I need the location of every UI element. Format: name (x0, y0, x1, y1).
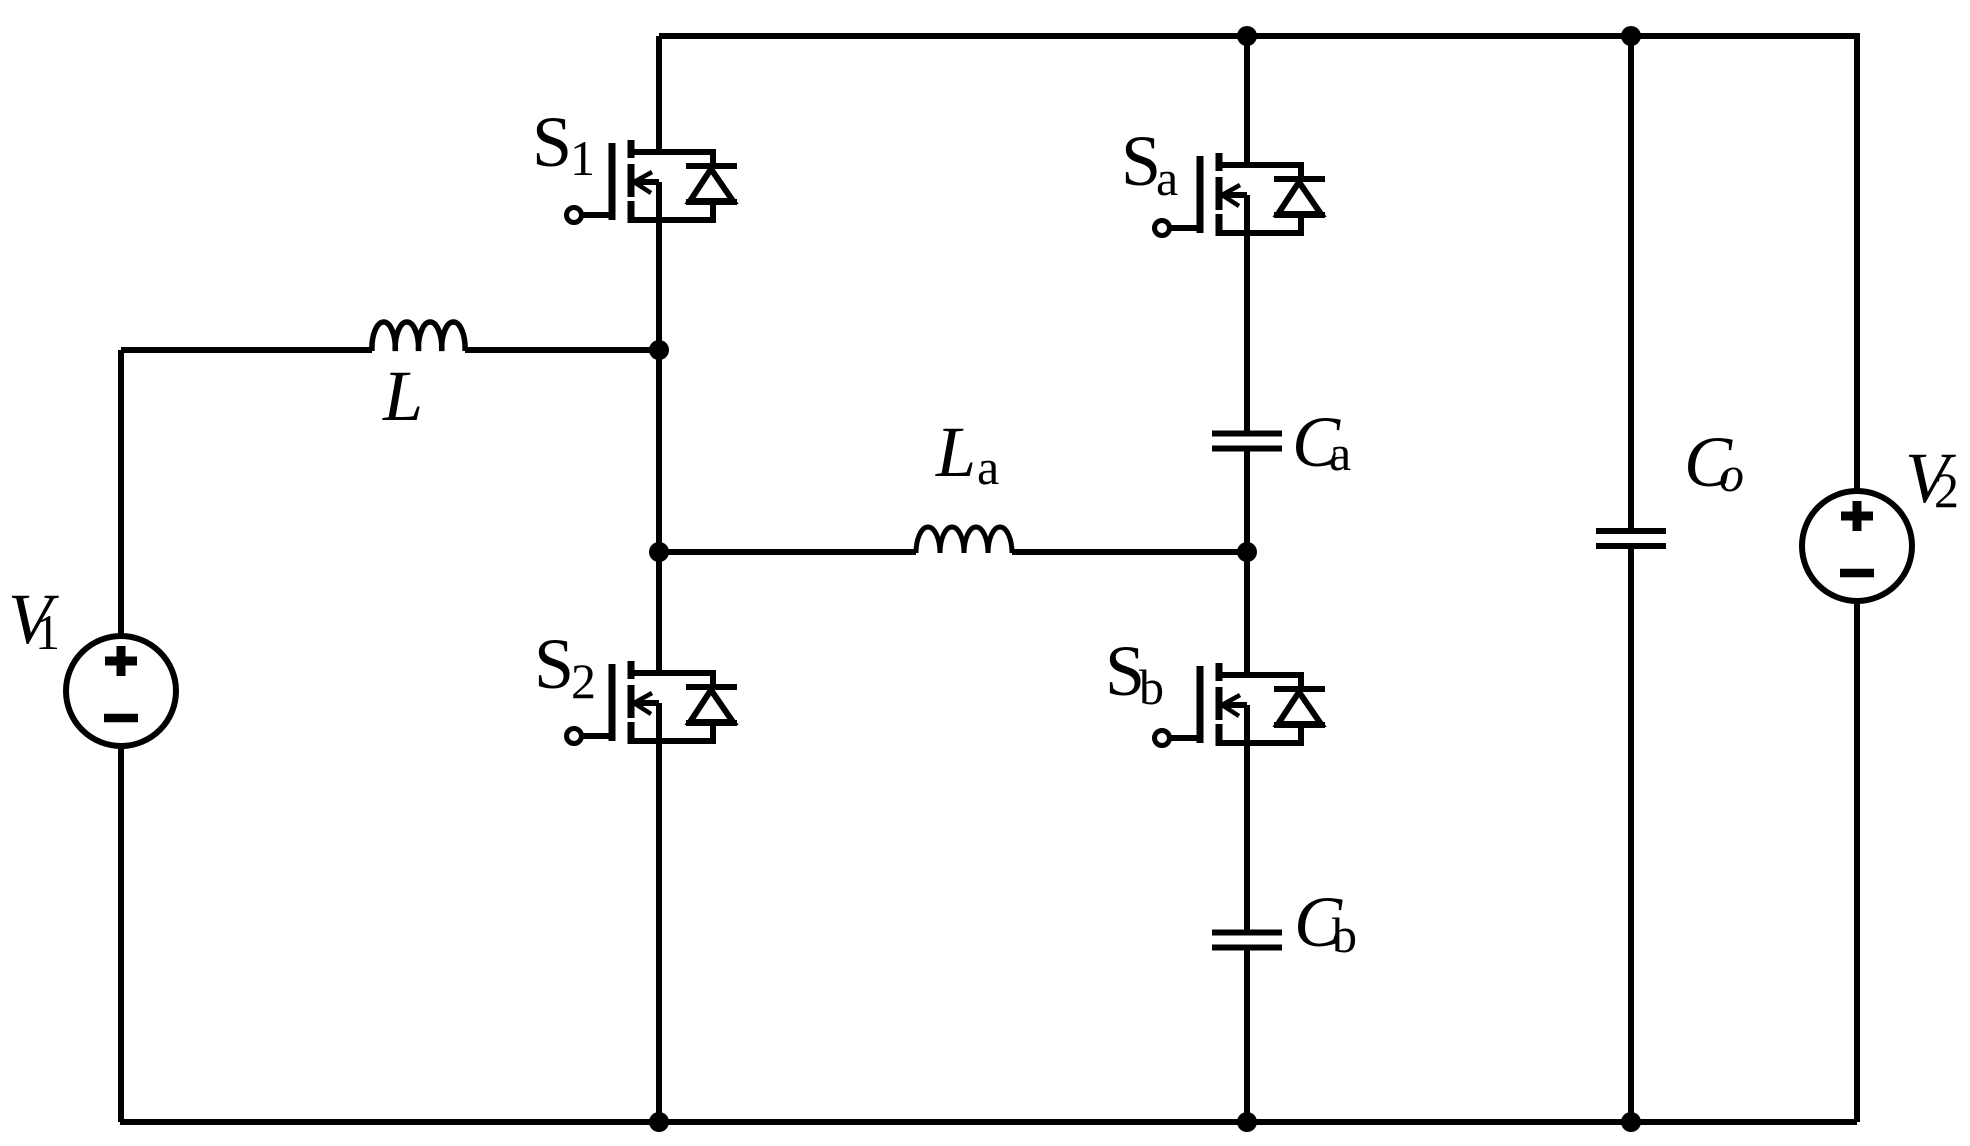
svg-text:a: a (1156, 150, 1178, 206)
svg-text:1: 1 (35, 604, 60, 660)
svg-text:2: 2 (571, 653, 596, 709)
svg-text:L: L (382, 356, 423, 436)
svg-text:o: o (1719, 446, 1744, 502)
svg-text:1: 1 (570, 130, 595, 186)
svg-text:a: a (977, 439, 999, 495)
svg-text:L: L (935, 412, 976, 492)
svg-text:S: S (532, 102, 572, 182)
svg-text:b: b (1332, 907, 1357, 963)
svg-text:b: b (1139, 659, 1164, 715)
svg-text:S: S (534, 624, 574, 704)
svg-text:a: a (1329, 425, 1351, 481)
svg-text:2: 2 (1934, 462, 1959, 518)
